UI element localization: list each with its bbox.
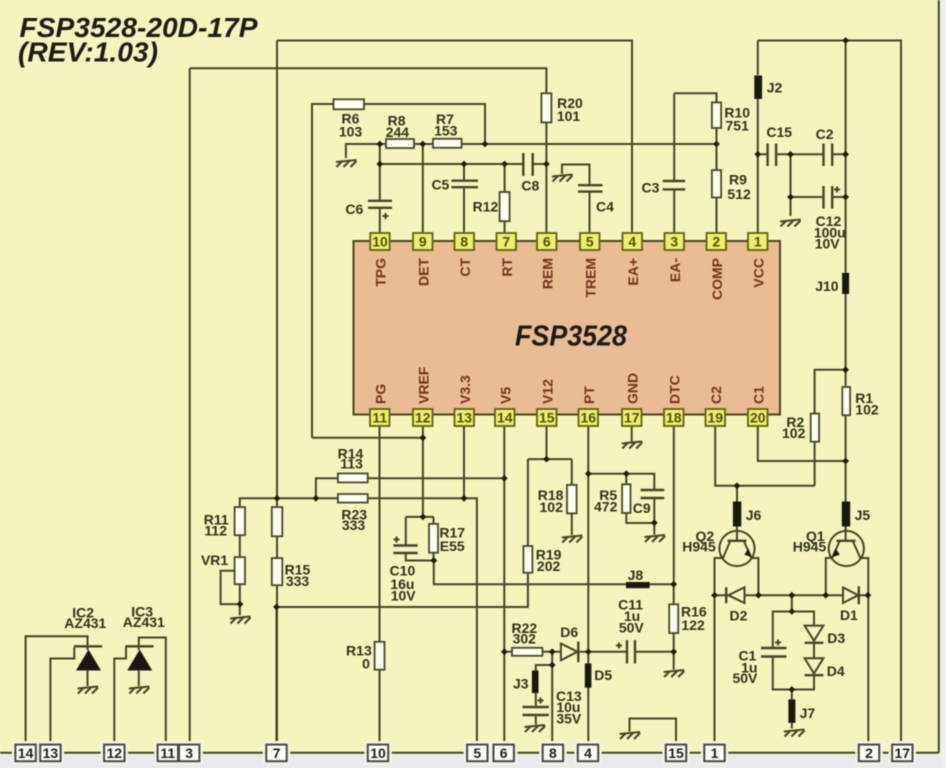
svg-text:C2: C2 <box>816 126 834 142</box>
svg-text:10: 10 <box>372 234 388 250</box>
svg-text:50V: 50V <box>732 670 758 686</box>
junction (654.3,522.8) <box>651 519 658 526</box>
svg-text:C4: C4 <box>596 199 614 215</box>
wire: J3 branch <box>536 665 552 725</box>
capacitor C6 plus <box>383 213 389 219</box>
wire: pin14 column to connector 6 <box>503 427 505 753</box>
wire: C10 stubs <box>406 517 434 561</box>
pin names top row <box>373 258 767 300</box>
svg-text:12: 12 <box>415 410 431 426</box>
wire: pin10 column through C6 <box>379 144 381 233</box>
wire: pin12 column <box>422 427 424 517</box>
svg-text:15: 15 <box>668 745 684 761</box>
svg-text:1: 1 <box>711 745 719 761</box>
junction (791.8,689.5) <box>788 686 795 693</box>
resistor R19 <box>523 546 532 573</box>
junction (546.5,459.1) <box>543 456 550 463</box>
wire: R11 VR1 column <box>239 535 241 615</box>
junction (845.6,154.3) <box>842 151 849 158</box>
svg-text:D6: D6 <box>560 624 578 640</box>
svg-text:D3: D3 <box>827 630 845 646</box>
svg-text:16: 16 <box>581 410 597 426</box>
jumper J10 <box>842 273 849 294</box>
wire: pin20 row to R1 bottom <box>758 427 846 462</box>
svg-text:H945: H945 <box>793 539 827 555</box>
capacitor C13 plates <box>523 707 549 715</box>
svg-text:13: 13 <box>43 745 59 761</box>
capacitor C6 plates <box>368 201 392 208</box>
svg-text:8: 8 <box>549 745 557 761</box>
junction (240,604.1) <box>237 601 244 608</box>
svg-text:11: 11 <box>160 745 175 761</box>
svg-text:VCC: VCC <box>750 258 766 288</box>
svg-text:PT: PT <box>581 386 597 404</box>
svg-text:18: 18 <box>666 410 682 426</box>
diode D4 <box>805 658 824 675</box>
wire: emitter node to C1 loop <box>791 595 793 611</box>
svg-text:J8: J8 <box>628 567 644 583</box>
svg-text:D5: D5 <box>594 667 612 683</box>
svg-text:10V: 10V <box>391 588 417 604</box>
wire: pin15 split to R19 and R18 <box>528 427 572 547</box>
svg-text:RT: RT <box>499 258 515 277</box>
wire: pin3 to R10 top bridge <box>674 93 716 102</box>
wire: D2 D1 row <box>715 594 868 596</box>
junction (673.7,584.2) <box>670 581 677 588</box>
wire: R17 stubs <box>433 517 435 561</box>
resistor R14 <box>338 473 368 482</box>
svg-text:472: 472 <box>594 499 618 515</box>
svg-text:FSP3528: FSP3528 <box>515 321 628 353</box>
svg-text:GND: GND <box>624 373 640 404</box>
ground C13 <box>525 725 546 732</box>
svg-text:V3.3: V3.3 <box>457 375 473 404</box>
wire: pin17 ground stub <box>631 427 633 442</box>
wire: vertical x=277 from top rail to R23 row <box>276 41 278 499</box>
resistor R7 <box>433 139 462 148</box>
wire: R23 row <box>240 498 477 753</box>
capacitor C3 plates <box>663 181 685 189</box>
svg-text:J3: J3 <box>513 676 529 692</box>
svg-text:6: 6 <box>543 234 551 250</box>
wire: J5 stub base Q1 <box>845 525 847 541</box>
svg-text:5: 5 <box>586 234 594 250</box>
resistor R5 <box>622 484 630 513</box>
capacitor C10 plus <box>394 537 400 543</box>
junction (790.5,197) <box>787 194 794 201</box>
wire: connector 15 ground loop <box>630 719 677 753</box>
connector numbers <box>18 745 910 761</box>
junction (737,485.8) <box>734 482 741 489</box>
ground VR1 <box>230 617 251 624</box>
svg-text:102: 102 <box>855 402 879 418</box>
junction (464,498.3) <box>461 495 468 502</box>
svg-text:14: 14 <box>497 410 513 426</box>
wire: Q2 collector to connector 1 <box>714 595 716 753</box>
svg-text:2: 2 <box>712 234 720 250</box>
junction (790.5,154.3) <box>787 151 794 158</box>
junction (588.3,651.8) <box>585 648 592 655</box>
svg-text:112: 112 <box>204 523 227 539</box>
svg-text:V12: V12 <box>539 379 555 404</box>
svg-text:REM: REM <box>539 258 555 289</box>
resistor R12 <box>500 192 510 221</box>
svg-text:14: 14 <box>18 745 34 761</box>
svg-text:C6: C6 <box>345 201 363 217</box>
svg-text:19: 19 <box>708 410 724 426</box>
junction (626.3,473.7) <box>623 470 630 477</box>
svg-text:H945: H945 <box>682 539 716 555</box>
wire: bottom bus <box>0 752 939 754</box>
wire: R17 bottom to J8 row <box>434 561 674 585</box>
wire: IC3 cathode to connector 11 <box>139 638 166 753</box>
wire: C1 D3 D4 loop <box>773 612 814 690</box>
svg-text:C15: C15 <box>766 124 792 140</box>
capacitor C10 plates <box>393 546 417 554</box>
resistor R16 <box>669 604 678 633</box>
ground R18 <box>562 536 583 543</box>
resistor R8 <box>386 139 414 148</box>
svg-text:13: 13 <box>457 410 473 426</box>
svg-text:C9: C9 <box>633 500 651 516</box>
svg-text:102: 102 <box>782 425 806 441</box>
resistor R10 <box>712 102 721 128</box>
svg-text:V5: V5 <box>497 387 513 404</box>
svg-text:751: 751 <box>726 118 750 134</box>
junction (504.3,478.3) <box>501 475 508 482</box>
junction (546.4,164) <box>543 161 550 168</box>
svg-text:15: 15 <box>539 410 555 426</box>
ground connector 15 loop <box>620 732 641 739</box>
svg-text:101: 101 <box>557 108 581 124</box>
svg-text:153: 153 <box>434 123 458 139</box>
svg-text:J7: J7 <box>800 705 816 721</box>
wire: VR1 wiper <box>221 571 240 604</box>
svg-text:244: 244 <box>386 124 410 140</box>
wire: pin3 column through C3 <box>673 93 675 232</box>
diode D6 <box>561 642 578 663</box>
wire: pin16 column to D5 connector 4 <box>587 427 589 753</box>
svg-text:EA-: EA- <box>667 258 683 282</box>
ground C12 <box>780 220 801 227</box>
junction (276.5,607) <box>273 604 280 611</box>
svg-text:VREF: VREF <box>415 366 431 404</box>
svg-text:E55: E55 <box>440 538 465 554</box>
pin numbers bottom <box>372 410 765 426</box>
capacitor C15 plates <box>768 144 777 167</box>
IC3 AZ431 shunt regulator <box>125 646 153 670</box>
capacitor C11 plus <box>616 643 622 649</box>
pin boxes top row pins 10..1 <box>370 233 767 250</box>
ground below R8 row <box>336 160 357 167</box>
svg-text:7: 7 <box>502 234 510 250</box>
diode D2 <box>726 587 744 603</box>
svg-text:0: 0 <box>362 656 370 672</box>
wire: C12 ground stub <box>790 197 792 216</box>
svg-text:4: 4 <box>628 234 636 250</box>
wire: connector 12 to IC3 ref <box>114 647 126 753</box>
wire: loop bottom to J7 and ground <box>791 690 793 729</box>
svg-text:D2: D2 <box>730 608 748 624</box>
resistor R18 <box>567 485 577 514</box>
svg-text:C1: C1 <box>750 386 766 404</box>
svg-text:DTC: DTC <box>666 375 682 404</box>
capacitor C1 plates <box>761 648 787 657</box>
svg-text:8: 8 <box>460 234 468 250</box>
diode D5 bar <box>585 664 592 688</box>
wire: R5 C9 top row <box>588 474 654 490</box>
svg-text:35V: 35V <box>556 711 582 727</box>
capacitor C8 plates <box>523 153 532 176</box>
svg-text:6: 6 <box>500 745 508 761</box>
resistor R20 <box>541 93 551 122</box>
svg-text:3: 3 <box>185 745 193 761</box>
svg-text:PG: PG <box>372 384 388 404</box>
svg-text:17: 17 <box>895 745 911 761</box>
svg-text:122: 122 <box>681 617 705 633</box>
svg-text:R12: R12 <box>473 199 499 215</box>
wire: R5 stubs <box>626 474 654 523</box>
junction (757.8,154.3) <box>754 151 761 158</box>
svg-text:113: 113 <box>340 456 363 472</box>
transistor Q1 <box>826 531 869 595</box>
IC2 AZ431 shunt regulator <box>74 646 102 670</box>
wire: R15 bottom row to R19 bottom <box>277 573 528 607</box>
capacitor C2 plates <box>824 144 833 167</box>
svg-text:DET: DET <box>415 258 431 286</box>
wire: R10 R9 junction to pin2 <box>716 128 718 233</box>
jumper J8 horizontal <box>626 582 650 588</box>
svg-text:AZ431: AZ431 <box>64 615 106 631</box>
junction (504.6,164) <box>501 161 508 168</box>
junction (845.6,40.5) <box>842 37 849 44</box>
resistor R24 unlabeled upper <box>272 507 283 536</box>
svg-text:10V: 10V <box>815 236 841 252</box>
diode D1 <box>843 586 859 604</box>
junction (552.2,651.8) <box>549 648 556 655</box>
junction (315.9,498.3) <box>313 495 320 502</box>
jumper J3 <box>532 671 539 694</box>
junction (867.9,595.2) <box>865 592 872 599</box>
wire: R16 column <box>673 584 675 669</box>
wire: C12 row <box>791 154 846 197</box>
connector boxes bottom <box>15 745 912 762</box>
wire: R2 branch <box>815 370 846 486</box>
svg-text:J5: J5 <box>855 507 871 523</box>
svg-text:J6: J6 <box>746 507 762 523</box>
junction (422.8,144) <box>419 141 426 148</box>
junction (845.6,369.8) <box>842 366 849 373</box>
svg-text:VR1: VR1 <box>201 552 228 568</box>
wire: left column x=277 R15 stack <box>276 498 278 753</box>
svg-text:C3: C3 <box>642 180 660 196</box>
svg-text:D4: D4 <box>827 663 845 679</box>
svg-text:302: 302 <box>513 631 537 647</box>
svg-text:202: 202 <box>537 558 561 574</box>
resistor R1 <box>842 387 850 415</box>
ground pin17 <box>622 442 643 449</box>
resistor R17 <box>429 524 438 553</box>
diode D3 <box>805 626 824 643</box>
svg-text:333: 333 <box>286 573 310 589</box>
wire: row B to R20 top <box>190 68 547 93</box>
resistor VR1 <box>235 557 245 584</box>
svg-text:AZ431: AZ431 <box>123 614 165 630</box>
resistor R13 <box>375 642 385 670</box>
ground R16 <box>664 670 685 677</box>
wire: connector 8 column <box>551 652 553 753</box>
svg-text:12: 12 <box>107 745 123 761</box>
svg-text:TPG: TPG <box>373 258 389 287</box>
capacitor C11 plates <box>627 640 635 664</box>
svg-text:(REV:1.03): (REV:1.03) <box>18 37 158 68</box>
junction (422.9,437.8) <box>420 434 427 441</box>
wire: C10 R17 top row <box>406 516 434 518</box>
capacitor C4 plates <box>578 185 603 191</box>
junction (758.4,595.2) <box>755 592 762 599</box>
pin boxes bottom row pins 11..20 <box>370 409 768 426</box>
junction (716.5,144) <box>713 141 720 148</box>
svg-text:1: 1 <box>754 234 762 250</box>
capacitor C13 plus <box>538 698 544 704</box>
resistor R6 <box>334 99 365 109</box>
wire: R8 R7 row with ground stub <box>346 144 717 158</box>
junction (277,498.3) <box>274 495 281 502</box>
resistor R23 <box>338 494 368 503</box>
wire: VREF row from x312 <box>312 437 423 439</box>
pin names bottom row <box>372 366 766 404</box>
ground C4 <box>552 175 573 182</box>
wire: pin5 C4 column with ground stub <box>562 165 590 233</box>
wire: pin13 column <box>463 427 465 499</box>
svg-text:17: 17 <box>624 410 640 426</box>
pin numbers top <box>372 234 762 250</box>
IC U1 FSP3528 body <box>354 241 781 415</box>
junction (791.8,611.5) <box>788 608 795 615</box>
wire: R14 row <box>316 478 504 498</box>
svg-text:J2: J2 <box>767 80 783 96</box>
svg-text:333: 333 <box>342 517 366 533</box>
wire: pin8 column through C5 <box>463 164 465 233</box>
ground J7 <box>784 730 805 737</box>
connector box halos <box>13 742 915 763</box>
wire: C9 bottom to ground <box>653 499 655 535</box>
svg-text:20: 20 <box>750 410 766 426</box>
wire: connector 7 stub <box>276 607 278 753</box>
wire: R6 row <box>312 104 485 438</box>
junction (845.6,461) <box>842 458 849 465</box>
junction (673.7,651.8) <box>670 648 677 655</box>
svg-text:D1: D1 <box>840 607 858 623</box>
resistor R15 <box>272 558 283 585</box>
resistor R9 <box>712 170 721 197</box>
wire: Q1 collector to connector 2 <box>867 595 869 753</box>
svg-text:EA+: EA+ <box>625 258 641 286</box>
junction (825.8,595.2) <box>822 592 829 599</box>
junction (504.3,651.8) <box>501 648 508 655</box>
svg-text:5: 5 <box>473 745 481 761</box>
wire: IC2 anode ground stub <box>87 671 89 686</box>
svg-text:C2: C2 <box>708 386 724 404</box>
capacitor C1 plus <box>775 640 781 646</box>
wire: pin7 column through R12 <box>504 164 506 233</box>
wire: C8 row right segment <box>534 163 547 165</box>
svg-text:3: 3 <box>670 234 678 250</box>
svg-text:TREM: TREM <box>582 258 598 298</box>
resistor R22 <box>512 648 542 656</box>
junction (379.8,164) <box>376 161 383 168</box>
junction (588.3,473.7) <box>585 470 592 477</box>
ground IC3 <box>129 687 150 694</box>
svg-text:11: 11 <box>372 410 387 426</box>
svg-text:9: 9 <box>419 234 427 250</box>
wire: right rail x=845.6 through J10 R1 J5 <box>845 41 847 532</box>
resistor R11 <box>235 507 245 535</box>
svg-text:50V: 50V <box>619 620 645 636</box>
wire: vertical to connector 3 <box>189 68 191 753</box>
svg-text:2: 2 <box>865 745 873 761</box>
wire: pin18 column to J8 row <box>673 427 675 585</box>
capacitor C12 plates <box>824 186 833 209</box>
wire: pin11 column through R13 to connector 10 <box>379 427 381 753</box>
junction (464,164) <box>461 161 468 168</box>
jumper J5 <box>842 502 850 527</box>
transistor Q2 <box>715 531 759 595</box>
junction (845.6,197) <box>842 194 849 201</box>
svg-text:102: 102 <box>540 499 564 515</box>
wire: far right edge vertical <box>938 0 940 753</box>
junction (714.5,595.2) <box>711 592 718 599</box>
junction (552.2,665) <box>549 662 556 669</box>
svg-text:103: 103 <box>339 124 363 140</box>
wire: VCC top rail right <box>758 41 901 753</box>
junction (422.9,516.9) <box>420 514 427 521</box>
svg-text:CT: CT <box>457 258 473 277</box>
junction (485,144) <box>482 141 489 148</box>
svg-text:COMP: COMP <box>709 258 725 300</box>
wire: pin19 row to R2 bottom <box>715 427 815 486</box>
svg-text:J10: J10 <box>815 278 839 294</box>
svg-text:C5: C5 <box>431 177 449 193</box>
wire: J6 stub <box>736 486 738 541</box>
wire: top rail EA+ row <box>277 41 632 233</box>
svg-text:512: 512 <box>727 186 751 202</box>
wire: connector 14 to IC2 cathode <box>26 636 88 753</box>
svg-text:C8: C8 <box>521 178 539 194</box>
wire: IC3 anode ground stub <box>138 671 140 686</box>
resistor R2 <box>811 414 819 442</box>
wire: connector 17 stub <box>901 745 903 753</box>
wire: pin6 R20 column <box>545 122 547 232</box>
svg-text:7: 7 <box>273 745 281 761</box>
wire: C8 row <box>380 163 523 165</box>
junction (791.8,595.2) <box>788 592 795 599</box>
junction (379.8,144) <box>376 141 383 148</box>
capacitor C5 plates <box>452 181 479 188</box>
ground R5 C9 <box>645 535 666 542</box>
svg-text:4: 4 <box>584 745 592 761</box>
svg-text:10: 10 <box>370 745 386 761</box>
jumper J6 <box>733 502 741 527</box>
wire: connector 13 to IC2 ref <box>50 647 74 753</box>
jumper J7 <box>788 699 795 723</box>
wire: R22 D6 C11 row <box>504 651 673 653</box>
wire: R18 ground stub <box>571 513 573 535</box>
wire: pin1 J2 column <box>757 41 759 233</box>
wire: C15 C2 row <box>758 153 846 155</box>
jumper J2 <box>754 76 762 100</box>
capacitor C9 plates <box>641 490 665 498</box>
